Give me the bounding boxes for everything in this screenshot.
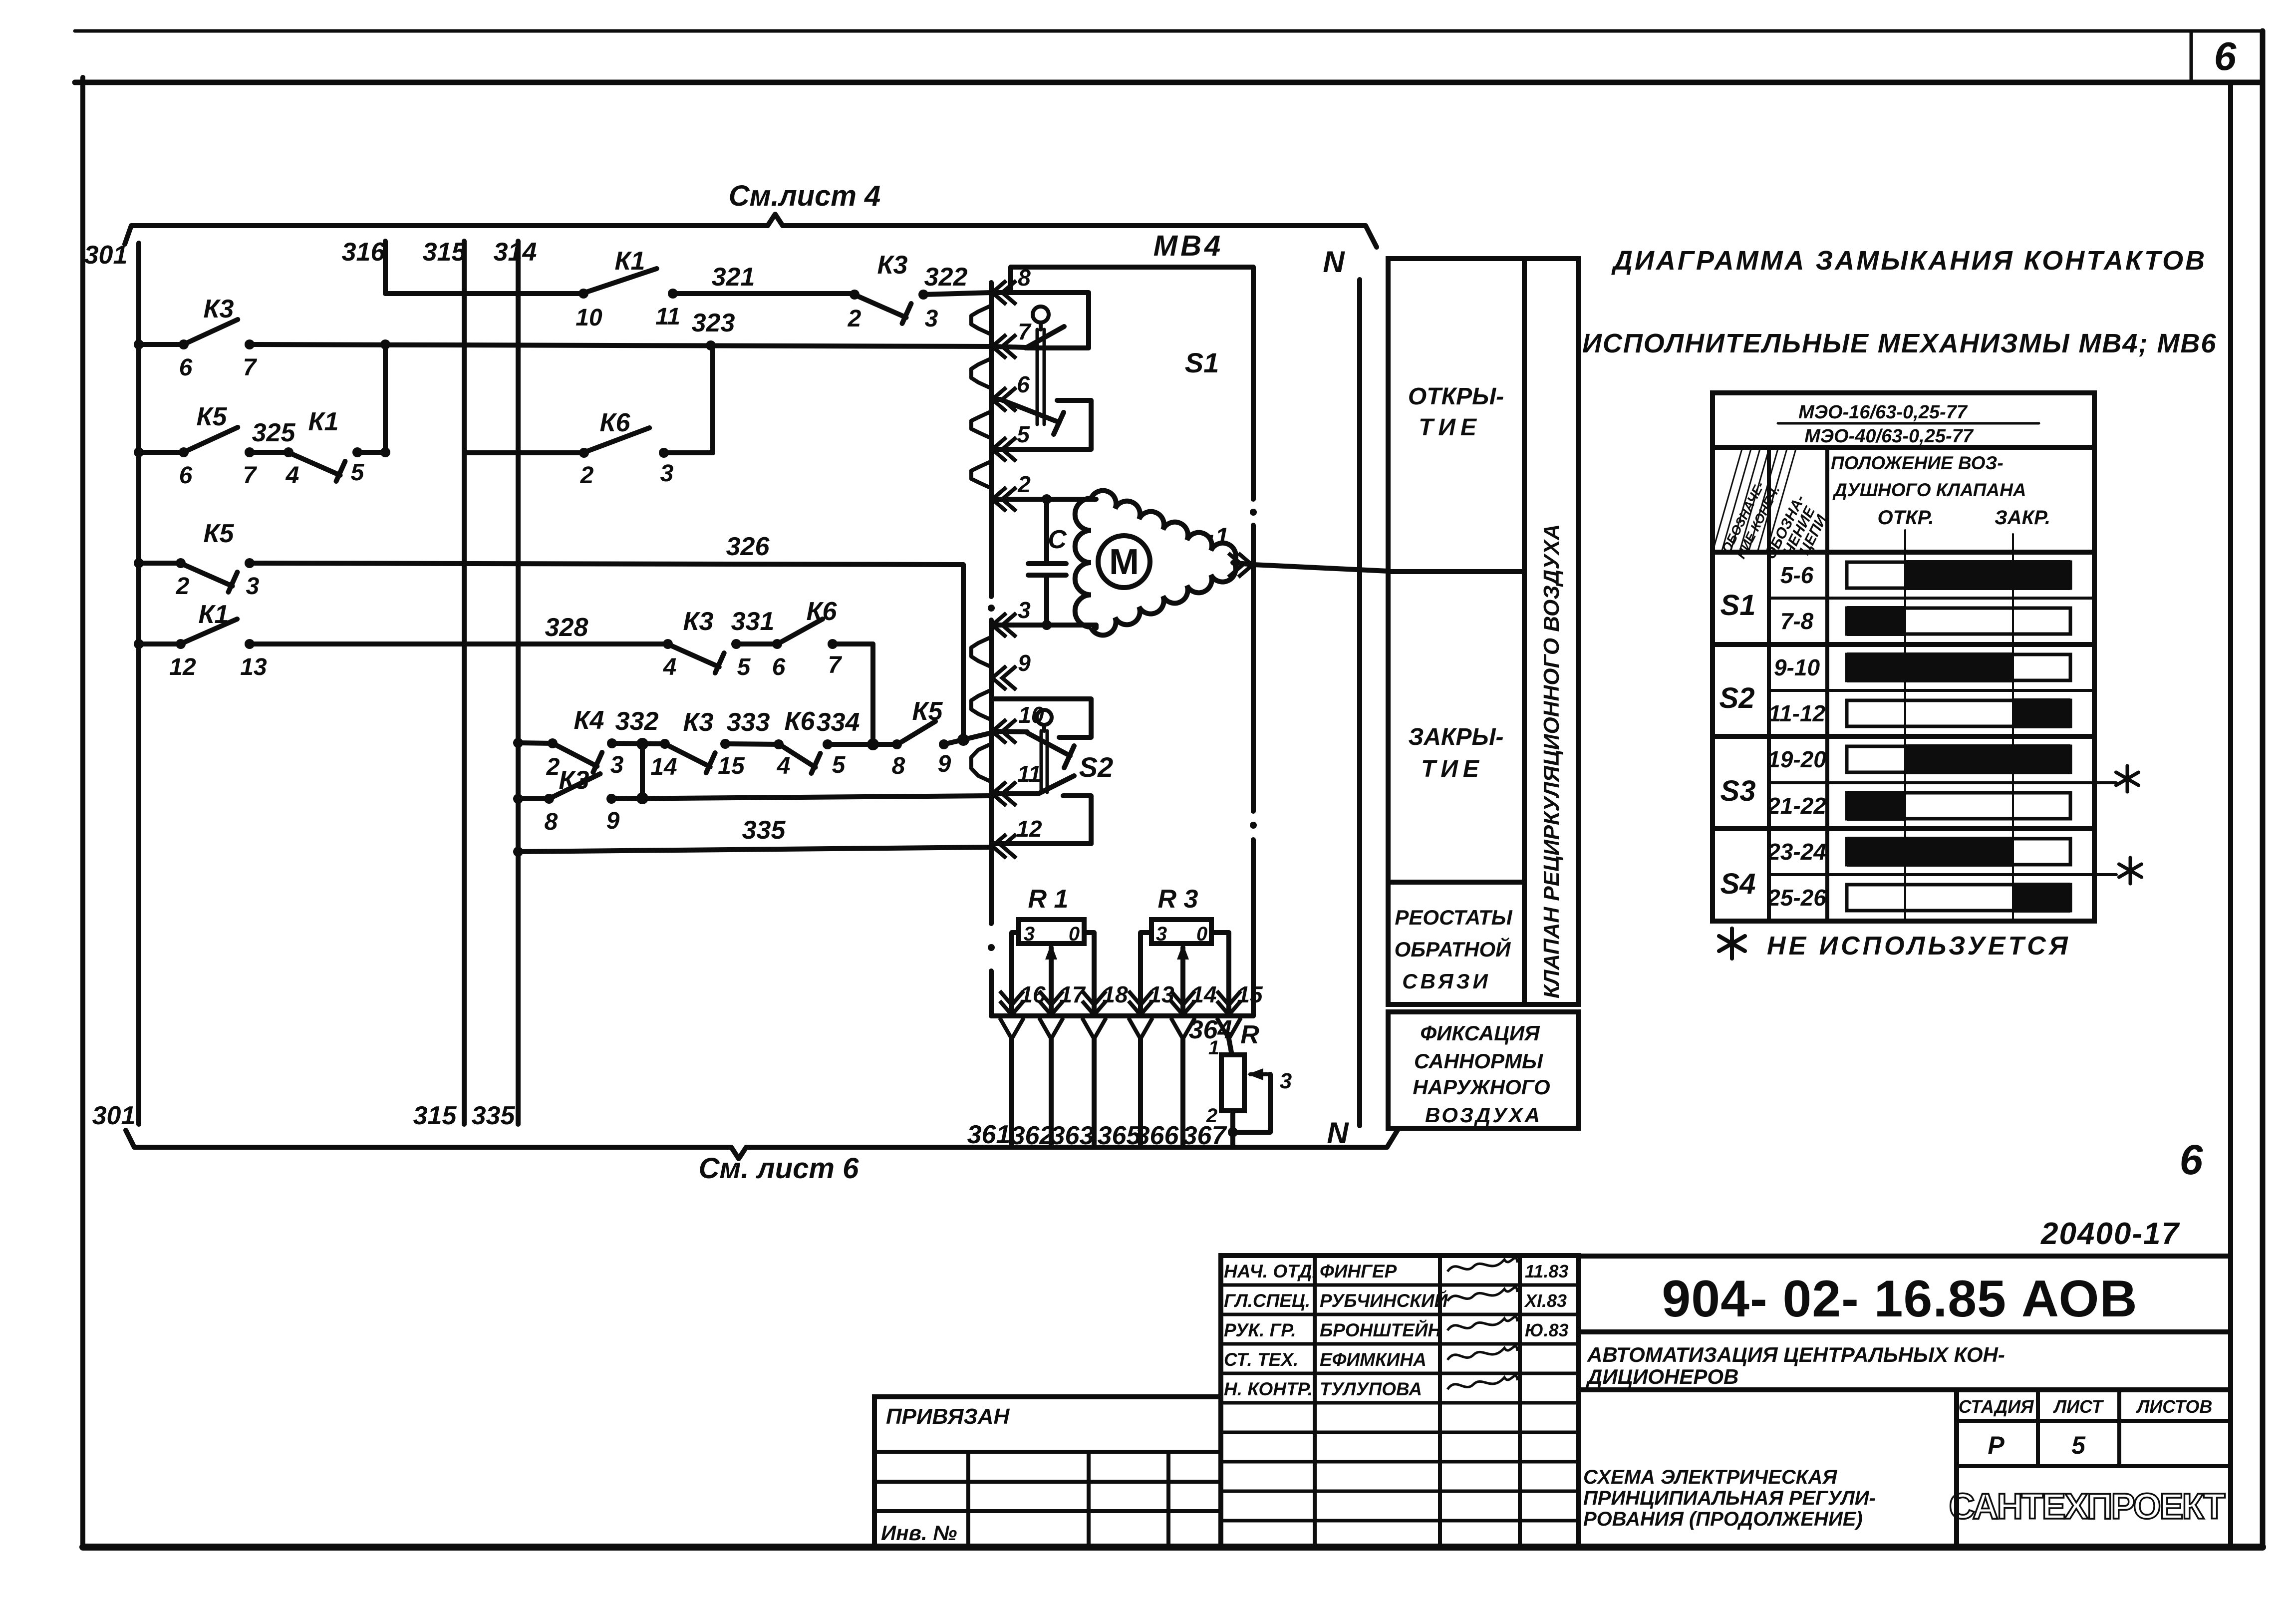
wire pin12 stub (993, 841, 1091, 846)
cam switch S2 arm pin10 (1027, 733, 1070, 756)
svg-text:315: 315 (413, 1101, 457, 1130)
svg-text:ГЛ.СПЕЦ.: ГЛ.СПЕЦ. (1224, 1290, 1310, 1311)
cam switch S2 arm pin11 (1038, 776, 1074, 794)
connector pin 11 (992, 782, 1016, 806)
svg-text:1: 1 (1208, 1037, 1219, 1059)
svg-text:5: 5 (737, 654, 751, 680)
cable bulge 10-11 (971, 744, 991, 782)
wire rowC left (139, 561, 181, 566)
svg-text:ЗАКРЫ-: ЗАКРЫ- (1408, 724, 1503, 750)
node rowA x772 (380, 339, 390, 349)
wire rowB left (139, 450, 184, 455)
svg-text:0: 0 (1196, 923, 1207, 945)
connector line MB4 (989, 283, 994, 597)
function box divider close/rheostat (1388, 880, 1524, 885)
svg-text:См.лист 4: См.лист 4 (729, 180, 881, 212)
contact bar 9-10 (1847, 654, 2070, 680)
svg-text:366: 366 (1136, 1121, 1179, 1150)
svg-text:316: 316 (342, 238, 386, 267)
wire pin6 stub (993, 397, 1000, 402)
svg-text:331: 331 (731, 607, 775, 636)
svg-text:335: 335 (472, 1101, 516, 1130)
table group divider S2/S3 (1713, 734, 2094, 739)
wire 365 (1138, 1039, 1143, 1147)
potentiometer R bottom lead / wire 367 (1230, 1111, 1235, 1147)
svg-text:ПОЛОЖЕНИЕ ВОЗ-: ПОЛОЖЕНИЕ ВОЗ- (1831, 453, 2004, 473)
svg-text:7: 7 (243, 354, 258, 381)
relay contact K3 (pins 2-3) (850, 290, 860, 300)
svg-text:N: N (1323, 245, 1345, 279)
svg-text:2: 2 (546, 754, 560, 780)
table group divider S1/S2 (1713, 642, 2094, 647)
contact bar 5-6 (1847, 562, 2070, 588)
svg-text:2: 2 (1206, 1105, 1217, 1127)
connector pin 12 (992, 834, 1016, 858)
node capacitor top junction (1042, 494, 1052, 504)
svg-text:МЭО-40/63-0,25-77: МЭО-40/63-0,25-77 (1804, 426, 1974, 447)
svg-text:3: 3 (1024, 923, 1035, 945)
rheostat R1 right lead (1084, 933, 1094, 1016)
wire motor bottom lead (1094, 625, 1099, 628)
node 332 junction (636, 738, 648, 750)
relay contact K3 (pins 4-5) (663, 639, 673, 649)
contact bar 23-24 (1847, 839, 2070, 865)
svg-text:328: 328 (545, 613, 588, 642)
svg-text:4: 4 (777, 753, 791, 779)
connector pin 17 (1039, 991, 1063, 1015)
relay contact K6 (pins 2-3) (579, 448, 589, 458)
node rowB x772 (380, 447, 390, 457)
cam switch S2 stem (1040, 731, 1043, 792)
wire rowB middle (357, 450, 385, 455)
svg-text:К5: К5 (204, 519, 235, 548)
svg-text:326: 326 (726, 532, 770, 561)
relay contact K1 (pins 10-11) (578, 289, 588, 299)
svg-text:К5: К5 (912, 697, 943, 726)
wire rowE to connector pin 11 (611, 796, 991, 799)
title block left box (874, 1397, 1221, 1547)
svg-text:314: 314 (494, 238, 537, 267)
connector pin 2 (992, 487, 1016, 511)
vertical link wire 326 down (961, 565, 966, 743)
note ne ispolzuetsya (1730, 929, 1734, 959)
node 332-rowE junction (636, 792, 648, 804)
table column line 2 (1825, 447, 1829, 921)
svg-text:ДИАГРАММА ЗАМЫКАНИЯ КОНТАКТО: ДИАГРАММА ЗАМЫКАНИЯ КОНТАКТОВ (1611, 246, 2207, 276)
svg-text:13: 13 (240, 654, 267, 680)
rheostat R1 left lead (1012, 933, 1019, 1016)
wire 362 (1049, 1039, 1054, 1147)
cam switch S2 flag 1 (993, 699, 1091, 737)
svg-text:R 3: R 3 (1158, 885, 1198, 914)
connector mate V pin 16 (1000, 1018, 1024, 1039)
cable bulge 7-6 (971, 358, 991, 388)
relay contact K3 (pins 14-15) (660, 739, 670, 749)
contact bar 7-8 (1847, 608, 2070, 634)
svg-text:ИСПОЛНИТЕЛЬНЫЕ МЕХАНИЗМЫ МВ: ИСПОЛНИТЕЛЬНЫЕ МЕХАНИЗМЫ МВ4; МВ6 (1582, 328, 2217, 358)
cam switch S1 flag 2 (1057, 400, 1091, 449)
dash-dot dot on connector line (988, 605, 995, 612)
node bus314-rowE (513, 794, 523, 804)
svg-text:3: 3 (1280, 1069, 1292, 1093)
vertical link 332 (640, 744, 645, 798)
svg-text:4: 4 (663, 654, 677, 680)
border bottom line (83, 1544, 2263, 1551)
svg-text:7: 7 (828, 652, 843, 678)
svg-text:18: 18 (1102, 981, 1128, 1007)
relay contact K5 (pins 2-3) (176, 558, 186, 568)
rheostat R3 left lead (1141, 933, 1151, 1016)
node bus301-rowC (134, 558, 144, 568)
device box MB4 top edge (1011, 265, 1253, 270)
svg-text:8: 8 (1018, 265, 1031, 291)
relay contact K5 (pins 8-9) (892, 739, 902, 749)
bracket rail to sheet 6 (bottom) (126, 1129, 1398, 1159)
wire 325 (250, 450, 288, 455)
table row divider S1 inner (1769, 597, 2094, 600)
svg-text:М: М (1109, 542, 1139, 582)
svg-text:S2: S2 (1079, 751, 1114, 783)
wire 363 (1092, 1039, 1097, 1147)
relay contact K6 (pins 6-7) (772, 639, 782, 649)
svg-text:9: 9 (938, 751, 951, 777)
svg-text:3: 3 (1156, 923, 1167, 945)
wire row1 from bus 316 (385, 291, 583, 296)
svg-text:S1: S1 (1721, 589, 1756, 622)
cam switch S1 knob (1033, 307, 1049, 322)
node bus314-row335 (513, 847, 523, 857)
svg-text:2: 2 (1017, 471, 1031, 497)
svg-text:ФИНГЕР: ФИНГЕР (1320, 1261, 1397, 1281)
svg-text:5: 5 (351, 459, 365, 486)
svg-text:3: 3 (660, 460, 674, 487)
contact bar 21-22 (1847, 793, 2070, 819)
svg-text:4: 4 (286, 462, 299, 489)
wire bus 316 stub (383, 241, 388, 294)
connector pin 1 output (1228, 553, 1252, 577)
svg-text:332: 332 (615, 707, 659, 736)
svg-text:ОБРАТНОЙ: ОБРАТНОЙ (1395, 937, 1511, 961)
wire 334 (828, 742, 897, 747)
connector pin 10 (992, 719, 1016, 743)
relay contact K3 (pins 8-9) (544, 794, 554, 804)
node rowD link junction (867, 738, 879, 750)
title block line under description (1578, 1387, 2231, 1392)
svg-text:НАЧ. ОТД.: НАЧ. ОТД. (1224, 1261, 1317, 1281)
rheostat R1 body (1019, 920, 1084, 944)
svg-text:ФИКСАЦИЯ: ФИКСАЦИЯ (1420, 1021, 1540, 1045)
wire rowD left (139, 641, 181, 646)
node bus314-rowF (513, 738, 523, 748)
wire rowA left (139, 342, 184, 347)
function box inner column divider (1522, 259, 1527, 1004)
rheostat R3 body (1151, 920, 1211, 944)
wire 328 (250, 641, 668, 646)
node capacitor bottom junction (1042, 620, 1052, 630)
svg-text:3: 3 (610, 752, 624, 778)
svg-text:К3: К3 (683, 708, 714, 737)
cable bulge 3-9 (971, 637, 991, 667)
connector pin 7 (992, 334, 1016, 358)
reference line ZAKR (2012, 534, 2014, 921)
svg-text:7-8: 7-8 (1780, 608, 1814, 634)
svg-text:САНТЕХПРОЕКТ: САНТЕХПРОЕКТ (1949, 1487, 2226, 1527)
connector mate V pin 18 (1082, 1018, 1106, 1039)
svg-text:САННОРМЫ: САННОРМЫ (1414, 1049, 1543, 1073)
stadiya list listov header (1954, 1390, 1959, 1547)
connector mate V pin 15 (1217, 1018, 1241, 1039)
cam switch S1 arm tick (1054, 412, 1064, 434)
node bus301-rowD (134, 639, 144, 649)
svg-text:12: 12 (169, 654, 196, 680)
cable bulge 8-7 (971, 306, 991, 334)
svg-text:БРОНШТЕЙН: БРОНШТЕЙН (1320, 1319, 1441, 1340)
border top thin line (75, 29, 2263, 33)
staff table box (1221, 1256, 1578, 1547)
staff table columns (1313, 1256, 1317, 1547)
svg-text:ТУЛУПОВА: ТУЛУПОВА (1320, 1379, 1422, 1399)
vertical link K6 to wire 323 (710, 345, 715, 453)
potentiometer R wiper (1250, 1072, 1270, 1076)
wire motor output to N (1233, 563, 1388, 571)
connector pin 6 (992, 387, 1016, 411)
connector mate V pin 14 (1171, 1018, 1195, 1039)
title block left box grid (874, 1450, 1221, 1454)
wire pin11 stub (993, 791, 1038, 796)
title block main box (1578, 1256, 2231, 1547)
svg-text:11: 11 (1017, 761, 1041, 787)
wire 361 (1009, 1039, 1014, 1147)
svg-text:К6: К6 (785, 707, 816, 736)
svg-text:15: 15 (718, 753, 745, 779)
border left line (80, 77, 85, 1547)
svg-text:СВЯЗИ: СВЯЗИ (1402, 969, 1490, 993)
border right outer line (2260, 31, 2266, 1547)
capacitor C1 (1028, 561, 1066, 566)
svg-text:333: 333 (727, 708, 770, 737)
contact bar 19-20 (1847, 746, 2070, 772)
svg-text:8: 8 (545, 809, 558, 835)
device box MB4 bottom edge (991, 1013, 1253, 1018)
svg-text:К3: К3 (559, 766, 589, 795)
svg-text:301: 301 (92, 1101, 136, 1130)
table group divider S3/S4 (1713, 826, 2094, 831)
svg-text:R 1: R 1 (1028, 885, 1069, 914)
svg-text:ВОЗДУХА: ВОЗДУХА (1425, 1103, 1542, 1127)
table header divider (1713, 445, 2094, 450)
svg-text:ДИЦИОНЕРОВ: ДИЦИОНЕРОВ (1586, 1365, 1738, 1388)
relay contact K4 (pins 2-3) (548, 738, 558, 748)
svg-text:11: 11 (655, 304, 680, 330)
svg-text:Ю.83: Ю.83 (1525, 1320, 1569, 1340)
potentiometer R body (1221, 1055, 1244, 1111)
cam switch S2 arm tick (1064, 746, 1074, 768)
svg-text:ПРИНЦИПИАЛЬНАЯ РЕГУЛИ-: ПРИНЦИПИАЛЬНАЯ РЕГУЛИ- (1583, 1487, 1876, 1509)
svg-text:23-24: 23-24 (1767, 839, 1826, 865)
svg-text:6: 6 (1017, 371, 1030, 397)
svg-text:НАРУЖНОГО: НАРУЖНОГО (1413, 1075, 1550, 1099)
table row divider S2 inner (1769, 689, 2094, 692)
wire 366 (1180, 1039, 1185, 1147)
svg-text:АВТОМАТИЗАЦИЯ ЦЕНТРАЛЬНЫХ: АВТОМАТИЗАЦИЯ ЦЕНТРАЛЬНЫХ КОН- (1587, 1343, 2005, 1366)
cam switch S2 knob (1037, 710, 1052, 725)
svg-text:ЛИСТОВ: ЛИСТОВ (2136, 1396, 2213, 1417)
wire bus 314 (516, 241, 521, 1124)
svg-text:СХЕМА ЭЛЕКТРИЧЕСКАЯ: СХЕМА ЭЛЕКТРИЧЕСКАЯ (1583, 1466, 1837, 1488)
device box MB4 left edge stub (1008, 267, 1013, 293)
svg-text:ПРИВЯЗАН: ПРИВЯЗАН (886, 1404, 1010, 1429)
border header band line (75, 80, 2263, 85)
svg-text:6: 6 (2180, 1136, 2204, 1183)
svg-text:8: 8 (892, 753, 905, 779)
svg-text:2: 2 (580, 462, 594, 489)
svg-text:Инв. №: Инв. № (881, 1521, 957, 1545)
svg-text:325: 325 (252, 418, 296, 447)
wire rowB to corner (664, 450, 713, 455)
table row divider S3 inner with asterisk (1769, 781, 2116, 784)
svg-text:ТИЕ: ТИЕ (1419, 414, 1481, 441)
svg-text:367: 367 (1183, 1121, 1227, 1150)
svg-text:К3: К3 (204, 295, 234, 323)
svg-text:14: 14 (1191, 981, 1216, 1007)
connector pin 9 (992, 666, 1016, 690)
svg-text:МЭО-16/63-0,25-77: МЭО-16/63-0,25-77 (1798, 402, 1968, 423)
dash-dot dot on MB4 right edge (1250, 509, 1257, 516)
svg-text:7: 7 (1018, 319, 1032, 344)
connector mate V pin 17 (1039, 1018, 1063, 1039)
svg-text:15: 15 (1237, 981, 1263, 1007)
svg-text:МВ4: МВ4 (1153, 230, 1223, 262)
svg-text:9-10: 9-10 (1774, 654, 1820, 680)
svg-text:СТАДИЯ: СТАДИЯ (1959, 1396, 2034, 1417)
net N vertical line (1357, 280, 1362, 1126)
cable bulge 6-5 (971, 411, 991, 438)
cam switch S1 arm pin7 (1026, 326, 1064, 348)
svg-text:334: 334 (817, 708, 860, 737)
cable bulge 5-2 (971, 461, 991, 488)
svg-text:315: 315 (423, 238, 467, 267)
title block line under doc number (1578, 1329, 2231, 1334)
svg-text:19-20: 19-20 (1767, 746, 1826, 772)
table header hatch cell 1 (1713, 447, 1742, 552)
connector pin 3 (992, 613, 1016, 637)
svg-text:7: 7 (243, 462, 258, 489)
svg-text:КЛАПАН РЕЦИРКУЛЯЦИОННОГО: КЛАПАН РЕЦИРКУЛЯЦИОННОГО ВОЗДУХА (1539, 524, 1564, 998)
rheostat R1 wiper lead (1049, 948, 1054, 1016)
svg-text:5: 5 (2071, 1431, 2086, 1459)
svg-text:3: 3 (1018, 597, 1031, 623)
cam switch S1 flag 1 (993, 293, 1089, 348)
cam switch S2 flag 2 (1063, 796, 1091, 844)
svg-text:25-26: 25-26 (1767, 885, 1826, 911)
wire rowD to corner (833, 641, 873, 646)
svg-text:К1: К1 (615, 247, 645, 276)
svg-text:322: 322 (924, 263, 968, 292)
svg-text:12: 12 (1016, 816, 1042, 842)
function box fixation (1388, 1012, 1578, 1128)
node wiper-367 junction (1228, 1127, 1238, 1137)
table row divider S4 inner with asterisk (1769, 873, 2116, 876)
motor M1 winding cloud (1091, 491, 1236, 561)
connector pin 13 (1129, 991, 1152, 1015)
svg-text:N: N (1327, 1116, 1349, 1150)
bracket rail to sheet 4 (top) (125, 214, 1377, 247)
connector pin 8 (992, 281, 1016, 305)
wire 322 to connector pin 8 (923, 293, 991, 295)
wire K6 branch from bus 315 (464, 450, 584, 455)
function box divider open/close (1388, 569, 1524, 574)
sheet-number box top right (2190, 31, 2193, 82)
connector mate V pin 13 (1129, 1018, 1152, 1039)
svg-text:К3: К3 (683, 607, 714, 636)
wire 323 to connector pin 7 (250, 344, 991, 346)
svg-text:ЛИСТ: ЛИСТ (2052, 1396, 2104, 1417)
capacitor C1 top lead (1044, 499, 1049, 564)
svg-text:11-12: 11-12 (1768, 700, 1826, 726)
wire pin5 stub (993, 447, 1091, 452)
svg-text:·1: ·1 (1207, 523, 1229, 551)
cable bulge 9-10 (971, 690, 991, 720)
svg-text:ДУШНОГО КЛАПАНА: ДУШНОГО КЛАПАНА (1832, 480, 2026, 500)
table header bottom line (1713, 550, 2094, 555)
svg-text:C: C (1048, 525, 1067, 554)
svg-text:361: 361 (967, 1120, 1011, 1149)
svg-text:0: 0 (1069, 923, 1080, 945)
svg-text:РЕОСТАТЫ: РЕОСТАТЫ (1395, 906, 1512, 929)
capacitor C1 bottom lead (1044, 575, 1049, 625)
relay contact K3 (pins 6-7) (179, 339, 189, 349)
svg-text:ЕФИМКИНА: ЕФИМКИНА (1320, 1349, 1427, 1370)
svg-text:3: 3 (246, 573, 260, 600)
svg-text:ЗАКР.: ЗАКР. (1995, 507, 2050, 529)
wire rowF to connector pin 10 (944, 733, 991, 744)
connector pin 16 (1000, 991, 1024, 1015)
contact bar 25-26 (1847, 885, 2070, 911)
svg-text:К1: К1 (199, 600, 229, 629)
svg-text:S2: S2 (1720, 682, 1755, 714)
table column line 1 (1767, 447, 1771, 921)
wire pin2 row (993, 497, 1087, 502)
connector pin 15 (1217, 991, 1241, 1015)
svg-text:2: 2 (848, 306, 861, 332)
wire rowF seg2 (612, 743, 665, 744)
wire 335 to connector pin 12 (518, 847, 991, 852)
node bus301-rowA (134, 339, 144, 349)
node 326 link junction (957, 734, 969, 746)
svg-text:5: 5 (1017, 421, 1030, 447)
svg-text:5: 5 (832, 752, 846, 778)
vertical link rowB to rowA (383, 344, 388, 452)
svg-text:9: 9 (606, 808, 620, 834)
contact bar 11-12 (1847, 700, 2070, 726)
svg-text:14: 14 (650, 754, 677, 780)
svg-text:РУК. ГР.: РУК. ГР. (1224, 1320, 1296, 1340)
node 323 junction (706, 340, 716, 350)
svg-text:21-22: 21-22 (1767, 793, 1826, 819)
svg-text:10: 10 (575, 305, 602, 331)
svg-text:365: 365 (1098, 1121, 1142, 1150)
svg-text:Р: Р (1988, 1431, 2005, 1459)
svg-text:362: 362 (1011, 1121, 1054, 1150)
svg-text:К6: К6 (807, 597, 838, 626)
vertical link rowD down to rowF (870, 644, 875, 743)
svg-text:XI.83: XI.83 (1524, 1290, 1567, 1311)
svg-text:6: 6 (179, 462, 193, 489)
cam switch S1 stem (1036, 329, 1039, 424)
svg-text:К5: К5 (197, 402, 228, 431)
svg-text:6: 6 (179, 354, 193, 381)
svg-text:2: 2 (176, 573, 190, 600)
